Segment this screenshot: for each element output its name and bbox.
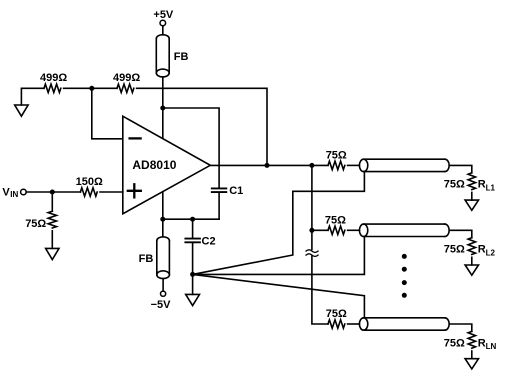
svg-text:AD8010: AD8010	[132, 158, 176, 172]
svg-text:75Ω: 75Ω	[444, 337, 465, 349]
svg-text:75Ω: 75Ω	[325, 214, 346, 226]
svg-text:150Ω: 150Ω	[76, 176, 103, 188]
svg-text:C2: C2	[202, 236, 216, 248]
svg-text:75Ω: 75Ω	[444, 179, 465, 191]
svg-text:FB: FB	[174, 51, 189, 63]
svg-text:L1: L1	[486, 183, 496, 192]
svg-text:75Ω: 75Ω	[25, 218, 46, 230]
svg-text:499Ω: 499Ω	[113, 72, 140, 84]
svg-text:C1: C1	[229, 185, 243, 197]
svg-text:R: R	[478, 244, 486, 256]
svg-text:R: R	[478, 179, 486, 191]
svg-text:R: R	[478, 337, 486, 349]
svg-text:+5V: +5V	[153, 9, 174, 21]
svg-text:L2: L2	[486, 248, 496, 257]
svg-text:V: V	[2, 187, 10, 199]
svg-text:−5V: −5V	[151, 299, 172, 311]
svg-text:IN: IN	[10, 190, 18, 199]
svg-text:75Ω: 75Ω	[326, 150, 347, 162]
svg-text:75Ω: 75Ω	[326, 308, 347, 320]
svg-text:LN: LN	[486, 342, 497, 351]
svg-text:75Ω: 75Ω	[444, 244, 465, 256]
svg-text:499Ω: 499Ω	[40, 72, 67, 84]
svg-text:FB: FB	[139, 253, 154, 265]
